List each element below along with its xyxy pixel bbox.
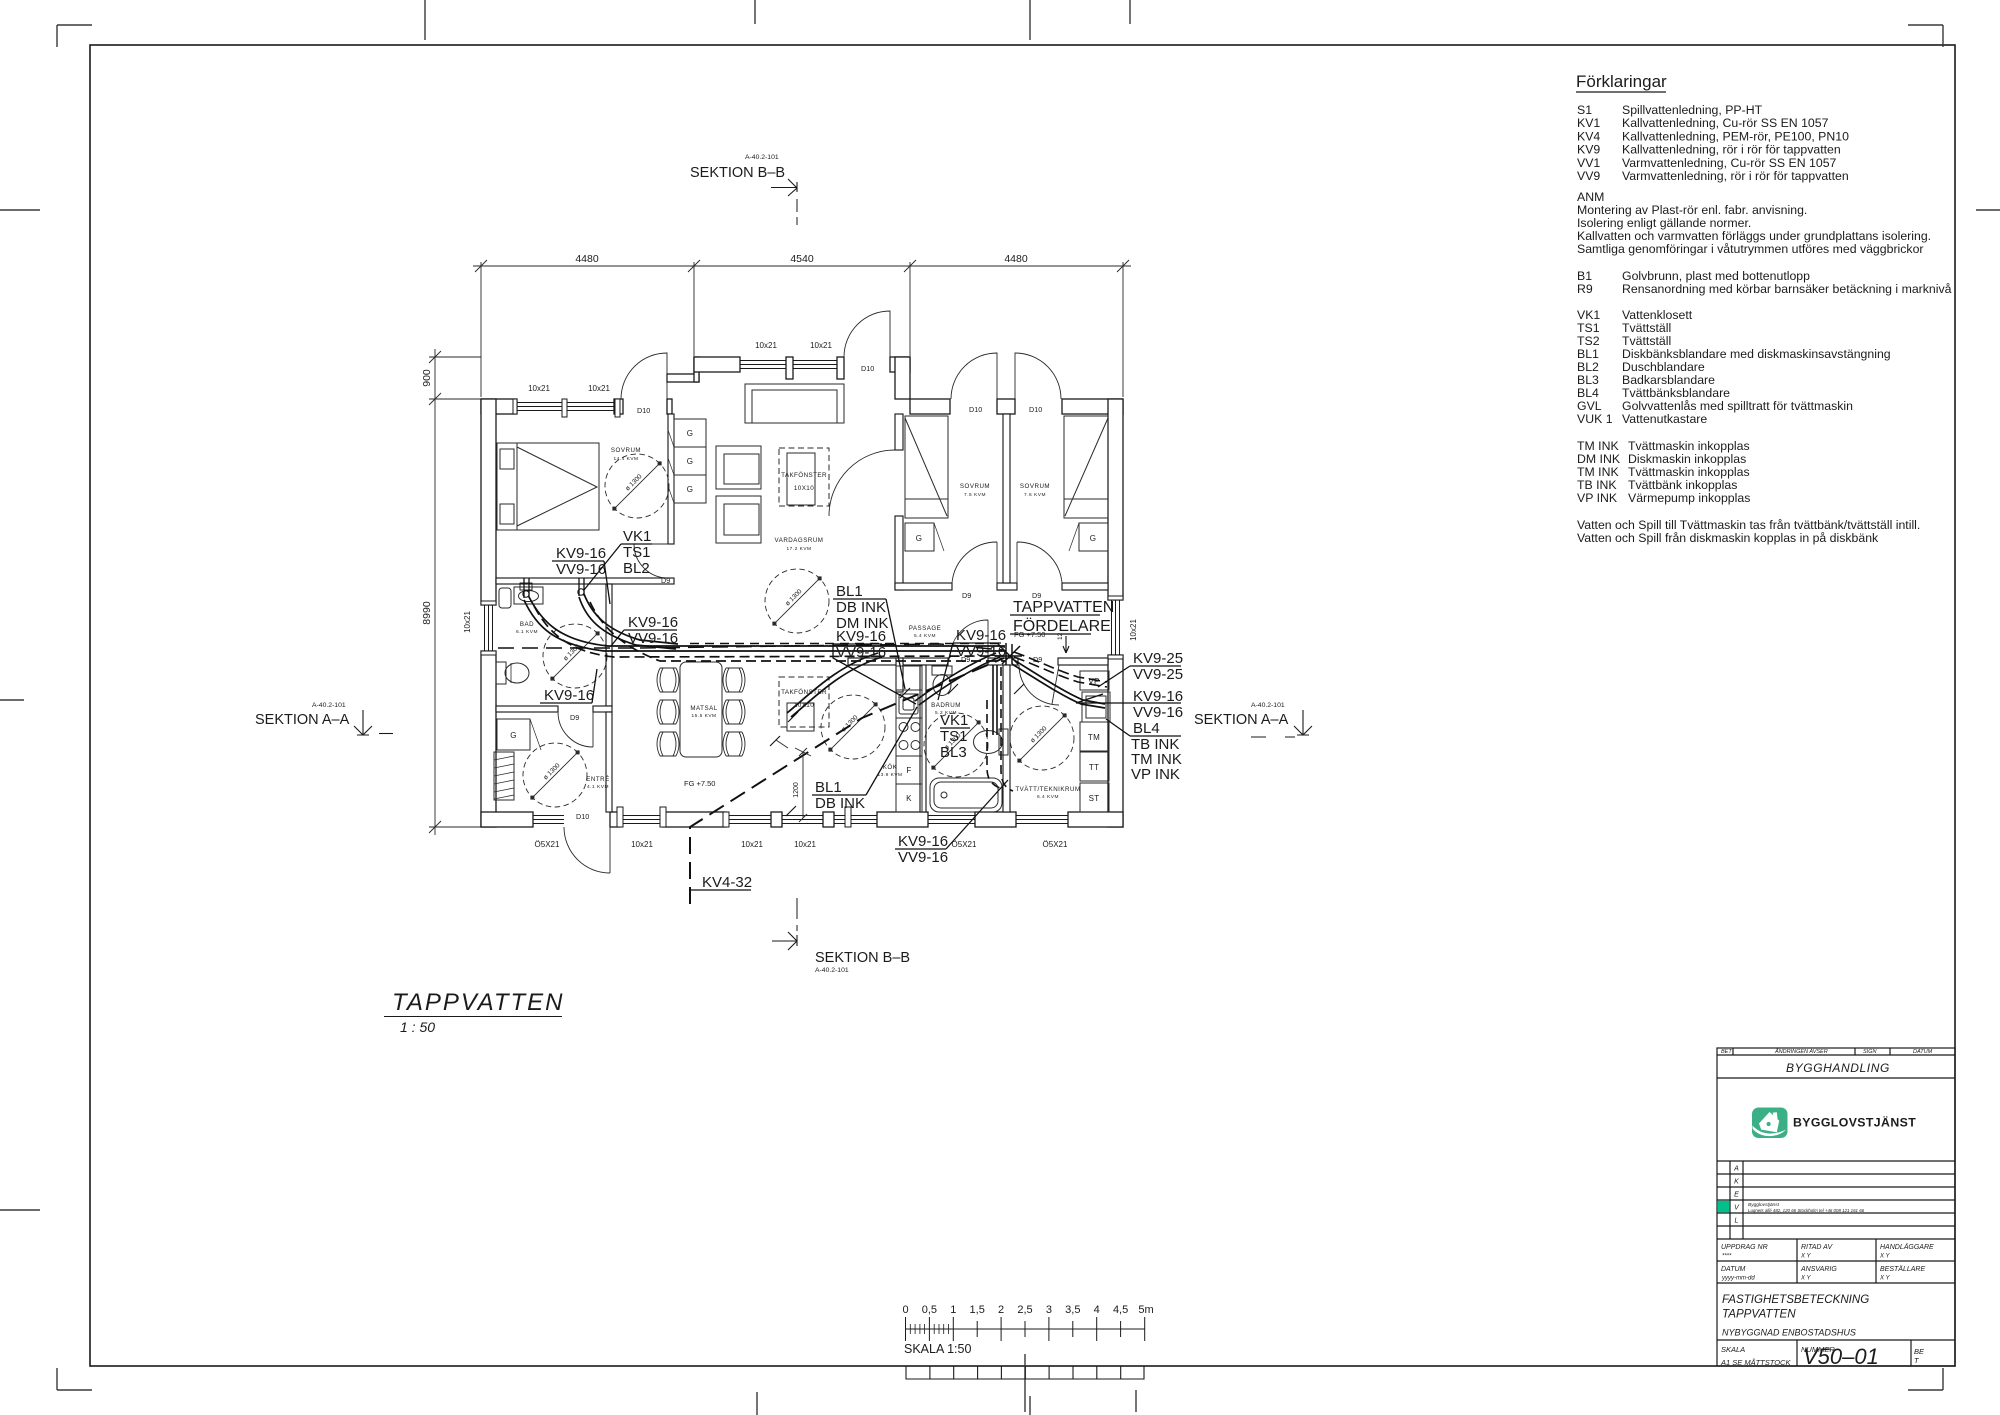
circle tvätt xyxy=(1010,706,1074,770)
svg-text:BADRUM: BADRUM xyxy=(931,702,961,709)
svg-text:VARDAGSRUM: VARDAGSRUM xyxy=(775,537,824,544)
takfönster vardagsrum xyxy=(779,448,829,506)
svg-text:10x21: 10x21 xyxy=(794,840,816,849)
window west 10x21 xyxy=(485,605,493,651)
svg-text:Rensanordning med körbar barns: Rensanordning med körbar barnsäker betäc… xyxy=(1622,282,1952,296)
window east 10x21 xyxy=(1112,600,1120,655)
wall bedrooms south xyxy=(895,583,952,590)
pipe KV main trunk pair from bad fixture 1 xyxy=(524,600,1005,651)
svg-text:Kallvattenledning, Cu-rör SS E: Kallvattenledning, Cu-rör SS EN 1057 xyxy=(1622,116,1829,130)
svg-text:A: A xyxy=(1733,1166,1739,1173)
pipe straight dashed west run xyxy=(498,647,640,649)
svg-text:BL3: BL3 xyxy=(940,744,967,761)
svg-text:BE: BE xyxy=(1914,1347,1925,1356)
title block frame xyxy=(1717,1048,1955,1366)
svg-text:BL4: BL4 xyxy=(1133,720,1160,737)
svg-text:Varmvattenledning, Cu-rör SS E: Varmvattenledning, Cu-rör SS EN 1057 xyxy=(1622,156,1837,170)
svg-text:Samtliga genomföringar i våtut: Samtliga genomföringar i våtutrymmen utf… xyxy=(1577,242,1924,256)
svg-text:X Y: X Y xyxy=(1879,1276,1891,1282)
kök sink xyxy=(899,694,918,714)
svg-text:5m: 5m xyxy=(1138,1304,1153,1316)
svg-text:Kallvattenledning, PEM-rör, PE: Kallvattenledning, PEM-rör, PE100, PN10 xyxy=(1622,129,1849,143)
legend Förklaringar xyxy=(1576,72,1952,545)
svg-text:Kallvattenledning, rör i rör f: Kallvattenledning, rör i rör för tappvat… xyxy=(1622,143,1841,157)
svg-text:SKALA 1:50: SKALA 1:50 xyxy=(904,1342,971,1356)
svg-text:10x21: 10x21 xyxy=(810,341,832,350)
svg-text:10X10: 10X10 xyxy=(794,702,814,709)
svg-text:Förklaringar: Förklaringar xyxy=(1576,72,1667,91)
svg-text:17.2 KVM: 17.2 KVM xyxy=(786,546,811,552)
svg-text:Vattenklosett: Vattenklosett xyxy=(1622,308,1693,322)
main drawing title TAPPVATTEN 1:50 xyxy=(384,989,564,1035)
svg-text:KV9: KV9 xyxy=(1577,143,1600,157)
pipes xyxy=(498,578,1107,904)
svg-text:0: 0 xyxy=(902,1304,908,1316)
svg-text:MATSAL: MATSAL xyxy=(690,705,717,712)
svg-text:KÖK: KÖK xyxy=(883,764,898,771)
svg-text:ST: ST xyxy=(1089,794,1100,803)
svg-text:TAPPVATTEN: TAPPVATTEN xyxy=(1722,1308,1796,1321)
svg-text:KV4: KV4 xyxy=(1577,129,1600,143)
svg-text:7.5 KVM: 7.5 KVM xyxy=(964,492,986,498)
window labels xyxy=(463,341,1138,849)
matsal table xyxy=(680,662,722,757)
svg-text:BL2: BL2 xyxy=(1577,360,1599,374)
tvätt TM TT ST boxes xyxy=(1080,722,1109,751)
svg-text:VV9-16: VV9-16 xyxy=(628,630,678,647)
wall top-right wing xyxy=(910,399,950,414)
section mark A-A right xyxy=(1194,702,1312,737)
svg-text:TAPPVATTEN: TAPPVATTEN xyxy=(392,989,564,1016)
svg-text:G: G xyxy=(687,429,694,438)
svg-text:D10: D10 xyxy=(576,812,589,821)
svg-text:SEKTION A–A: SEKTION A–A xyxy=(255,712,350,728)
svg-text:BL1: BL1 xyxy=(815,779,842,796)
svg-text:14.4 KVM: 14.4 KVM xyxy=(613,456,638,462)
svg-text:900: 900 xyxy=(421,369,433,387)
circle vardagsrum xyxy=(765,569,829,633)
svg-text:Tvättställ: Tvättställ xyxy=(1622,334,1671,348)
svg-text:TT: TT xyxy=(1089,763,1099,772)
svg-text:1200: 1200 xyxy=(793,782,800,798)
svg-text:KV9-25: KV9-25 xyxy=(1133,650,1183,667)
svg-text:D9: D9 xyxy=(962,591,971,600)
wall bad east xyxy=(606,584,612,706)
dimension top xyxy=(473,260,1131,397)
pipe drop badrum xyxy=(996,665,998,735)
armchair 1 xyxy=(716,446,761,489)
svg-text:NYBYGGNAD ENBOSTADSHUS: NYBYGGNAD ENBOSTADSHUS xyxy=(1722,1328,1856,1338)
closet G sovrum1 xyxy=(674,419,706,503)
svg-text:BL1: BL1 xyxy=(1577,347,1599,361)
bad shower corner xyxy=(499,588,511,608)
pipe branch VP dashed xyxy=(1014,652,1107,682)
svg-text:L: L xyxy=(1735,1218,1739,1225)
window 10x21 pair middle top xyxy=(740,361,837,369)
svg-text:TM INK: TM INK xyxy=(1577,465,1619,479)
svg-text:Ö5X21: Ö5X21 xyxy=(1043,840,1068,849)
interior walls xyxy=(496,414,1108,812)
bottom centering strip boxes xyxy=(906,1366,1144,1379)
svg-text:D10: D10 xyxy=(969,405,982,414)
pipe branch kök island DM xyxy=(791,657,882,717)
project titles xyxy=(1720,1293,1925,1369)
svg-text:VK1: VK1 xyxy=(623,528,651,545)
bed sovrum1 xyxy=(497,443,599,530)
pipe tick marks xyxy=(770,684,1024,816)
svg-text:KV9-16: KV9-16 xyxy=(956,627,1006,644)
svg-text:D9: D9 xyxy=(1032,591,1041,600)
door D9 sovrum1 xyxy=(634,544,668,578)
svg-text:Duschblandare: Duschblandare xyxy=(1622,360,1705,374)
window symbols xyxy=(481,361,1123,828)
wall middle top xyxy=(694,357,740,372)
door labels xyxy=(570,364,1042,821)
svg-text:Ö5X21: Ö5X21 xyxy=(952,840,977,849)
wall bedroom divider xyxy=(1003,414,1010,583)
bed sovrum2 xyxy=(905,416,1108,551)
svg-text:D9: D9 xyxy=(570,713,579,722)
wall sovrum1 east xyxy=(668,414,674,544)
wall vardagsrum east xyxy=(895,414,903,450)
svg-text:SKALA: SKALA xyxy=(1721,1345,1745,1354)
pipe VV trunk dashed pair xyxy=(534,606,1005,657)
svg-text:KV9-16: KV9-16 xyxy=(544,687,594,704)
svg-text:G: G xyxy=(687,485,694,494)
bathtub xyxy=(930,778,1002,812)
svg-text:V50–01: V50–01 xyxy=(1803,1344,1879,1369)
wall west xyxy=(481,399,496,605)
fields UPPDRAG NR / RITAD AV / HANDLÄGGARE xyxy=(1721,1243,1934,1273)
svg-text:KV4-32: KV4-32 xyxy=(702,874,752,891)
svg-text:4540: 4540 xyxy=(790,253,814,265)
svg-text:D9: D9 xyxy=(661,576,670,585)
pipe riser stubs bad wall xyxy=(524,578,584,598)
svg-text:BESTÄLLARE: BESTÄLLARE xyxy=(1880,1265,1925,1273)
circle badrum xyxy=(924,713,988,777)
room labels xyxy=(520,447,1081,793)
svg-text:3,5: 3,5 xyxy=(1065,1304,1080,1316)
svg-text:GVL: GVL xyxy=(1577,399,1602,413)
svg-text:6.1 KVM: 6.1 KVM xyxy=(516,629,538,635)
door D9 sovrum2 xyxy=(952,542,997,583)
svg-text:Diskmaskin inkopplas: Diskmaskin inkopplas xyxy=(1628,452,1746,466)
svg-text:G: G xyxy=(1090,534,1097,543)
wall badrum west xyxy=(920,665,926,812)
wall passage south xyxy=(848,658,948,665)
svg-text:Badkarsblandare: Badkarsblandare xyxy=(1622,373,1715,387)
svg-text:Vattenutkastare: Vattenutkastare xyxy=(1622,412,1707,426)
pipe branch kök sink xyxy=(919,657,1000,705)
svg-text:DB INK: DB INK xyxy=(815,795,865,812)
svg-text:D10: D10 xyxy=(861,364,874,373)
svg-text:VV1: VV1 xyxy=(1577,156,1600,170)
svg-text:K: K xyxy=(906,794,912,803)
svg-text:Tvättställ: Tvättställ xyxy=(1622,321,1671,335)
svg-text:Varmvattenledning, rör i rör f: Varmvattenledning, rör i rör för tappvat… xyxy=(1622,169,1849,183)
bed sovrum3 xyxy=(1064,416,1108,518)
circle sovrum1 xyxy=(605,454,669,518)
badrum sink TS1 xyxy=(974,731,1003,754)
svg-text:Tvättbänksblandare: Tvättbänksblandare xyxy=(1622,386,1730,400)
svg-text:Ö5X21: Ö5X21 xyxy=(535,840,560,849)
section mark B-B top xyxy=(690,154,797,225)
svg-text:1 : 50: 1 : 50 xyxy=(400,1019,435,1035)
svg-text:Diskbänksblandare med diskmask: Diskbänksblandare med diskmaskinsavstäng… xyxy=(1622,347,1891,361)
svg-text:S1: S1 xyxy=(1577,103,1592,117)
svg-text:5.4 KVM: 5.4 KVM xyxy=(914,633,936,639)
svg-text:4: 4 xyxy=(1094,1304,1100,1316)
svg-text:BAD: BAD xyxy=(520,621,534,628)
svg-text:4.1 KVM: 4.1 KVM xyxy=(587,784,609,790)
door D9 sovrum3 xyxy=(1017,542,1062,583)
takfönster labels xyxy=(781,471,827,709)
scale bar xyxy=(906,1317,1145,1341)
svg-text:BYGGHANDLING: BYGGHANDLING xyxy=(1786,1061,1890,1075)
svg-text:Spillvattenledning, PP-HT: Spillvattenledning, PP-HT xyxy=(1622,103,1763,117)
bad sink xyxy=(514,587,543,604)
door opening vardagsrum east xyxy=(829,450,895,516)
svg-text:13.9 KVM: 13.9 KVM xyxy=(877,772,902,778)
svg-text:VV9-16: VV9-16 xyxy=(836,644,886,661)
svg-text:FG +7.50: FG +7.50 xyxy=(684,779,715,788)
door D10 entré bottom xyxy=(564,827,610,879)
svg-text:SOVRUM: SOVRUM xyxy=(611,447,641,454)
wall east xyxy=(1108,399,1123,600)
door D9 badrum xyxy=(950,620,988,658)
doors xyxy=(558,311,1062,879)
svg-text:10x21: 10x21 xyxy=(463,611,472,633)
svg-text:KV9-16: KV9-16 xyxy=(898,833,948,850)
svg-text:8990: 8990 xyxy=(421,601,433,625)
circle entré xyxy=(523,743,587,807)
tvätt bänk BL4 xyxy=(1082,692,1110,722)
svg-text:5.2 KVM: 5.2 KVM xyxy=(935,710,957,716)
svg-text:Golvbrunn, plast med bottenutl: Golvbrunn, plast med bottenutlopp xyxy=(1622,269,1810,283)
door D9 bad south xyxy=(558,712,593,747)
wall south xyxy=(481,812,533,827)
svg-text:G: G xyxy=(687,457,694,466)
door D10 middle top xyxy=(844,311,890,357)
annotation underlines + leaders xyxy=(540,544,1181,890)
svg-text:DATUM: DATUM xyxy=(1913,1049,1933,1055)
svg-text:Kallvatten och varmvatten förl: Kallvatten och varmvatten förläggs under… xyxy=(1577,229,1931,243)
wall bad north xyxy=(496,578,674,584)
takfönster kök xyxy=(779,677,829,727)
pipe KV4-32 service line xyxy=(690,658,1004,904)
svg-text:12: 12 xyxy=(1057,632,1064,640)
logo green square xyxy=(1752,1108,1788,1139)
svg-text:BL3: BL3 xyxy=(1577,373,1599,387)
FG level labels xyxy=(684,630,1045,788)
svg-text:ÄNDRINGEN AVSER: ÄNDRINGEN AVSER xyxy=(1774,1048,1828,1055)
svg-text:G: G xyxy=(510,731,517,740)
svg-text:3: 3 xyxy=(1046,1304,1052,1316)
svg-text:DM INK: DM INK xyxy=(1577,452,1621,466)
wall kök north jamb xyxy=(896,658,903,692)
svg-text:A-40.2-101: A-40.2-101 xyxy=(1251,702,1285,709)
wall badrum east xyxy=(1003,665,1010,812)
svg-text:R9: R9 xyxy=(1577,282,1593,296)
windows south wall xyxy=(533,816,564,824)
entré radiator xyxy=(494,752,514,800)
svg-text:E: E xyxy=(1734,1192,1739,1199)
svg-text:****: **** xyxy=(1722,1254,1732,1260)
svg-text:TS2: TS2 xyxy=(1577,334,1600,348)
door D10 sovrum3 top xyxy=(1015,353,1061,399)
svg-text:VV9-16: VV9-16 xyxy=(556,561,606,578)
pipe extra band dash xyxy=(690,643,1002,645)
svg-text:Vatten och Spill till Tvättmas: Vatten och Spill till Tvättmaskin tas fr… xyxy=(1577,518,1920,532)
svg-text:VP INK: VP INK xyxy=(1131,766,1180,783)
door D9 tvätt xyxy=(1019,665,1059,705)
svg-text:FG +7.50: FG +7.50 xyxy=(1014,630,1045,639)
svg-text:UPPDRAG NR: UPPDRAG NR xyxy=(1721,1244,1768,1251)
svg-text:Tvättmaskin inkopplas: Tvättmaskin inkopplas xyxy=(1628,465,1750,479)
wall entry nook xyxy=(667,374,699,382)
svg-text:TM INK: TM INK xyxy=(1577,439,1619,453)
svg-text:TB INK: TB INK xyxy=(1577,478,1617,492)
entré closet G xyxy=(497,719,530,750)
svg-text:ANSVARIG: ANSVARIG xyxy=(1800,1266,1837,1273)
svg-text:BL2: BL2 xyxy=(623,560,650,577)
svg-text:yyyy-mm-dd: yyyy-mm-dd xyxy=(1721,1276,1755,1282)
svg-text:2,5: 2,5 xyxy=(1017,1304,1032,1316)
appliance letters xyxy=(510,429,1100,803)
revision letters A K E V L xyxy=(1733,1166,1740,1225)
svg-text:Lugnets allé 482, 120 66 Stock: Lugnets allé 482, 120 66 Stockholm tel +… xyxy=(1748,1208,1865,1213)
svg-text:B1: B1 xyxy=(1577,269,1592,283)
svg-text:10x21: 10x21 xyxy=(528,384,550,393)
svg-text:4480: 4480 xyxy=(1004,253,1028,265)
section mark A-A left xyxy=(255,702,393,735)
svg-text:VUK 1: VUK 1 xyxy=(1577,412,1613,426)
door D10 entry top-left xyxy=(621,353,667,399)
svg-text:4,5: 4,5 xyxy=(1113,1304,1128,1316)
svg-text:1: 1 xyxy=(950,1304,956,1316)
svg-text:VV9-16: VV9-16 xyxy=(1133,704,1183,721)
svg-text:ENTRÉ: ENTRÉ xyxy=(586,776,609,783)
svg-text:SEKTION B–B: SEKTION B–B xyxy=(690,165,785,181)
svg-text:D9: D9 xyxy=(961,655,970,664)
svg-text:SOVRUM: SOVRUM xyxy=(1020,483,1050,490)
svg-text:D10: D10 xyxy=(637,406,650,415)
svg-text:A-40.2-101: A-40.2-101 xyxy=(745,154,779,161)
wall top-left wing xyxy=(481,399,517,414)
pipe branch BL4 bench xyxy=(1014,660,1105,704)
svg-text:X Y: X Y xyxy=(1879,1254,1891,1260)
svg-text:4480: 4480 xyxy=(575,253,599,265)
svg-text:15.5 KVM: 15.5 KVM xyxy=(691,713,716,719)
wall entré east xyxy=(606,712,612,812)
pipe KV pair from bad fixture 2 xyxy=(579,597,676,649)
svg-text:BYGGLOVSTJÄNST: BYGGLOVSTJÄNST xyxy=(1793,1115,1916,1130)
svg-text:A1 SE MÅTTSTOCK: A1 SE MÅTTSTOCK xyxy=(1720,1358,1791,1367)
annotation labels xyxy=(544,528,1183,891)
wall bad south xyxy=(496,706,558,712)
svg-text:TAPPVATTEN: TAPPVATTEN xyxy=(1013,599,1114,616)
svg-text:F: F xyxy=(906,766,911,775)
dimension left xyxy=(429,349,481,835)
svg-text:DATUM: DATUM xyxy=(1721,1266,1746,1273)
svg-text:10x21: 10x21 xyxy=(588,384,610,393)
badrum toilet VK1 xyxy=(932,666,952,675)
svg-text:SIGN: SIGN xyxy=(1863,1049,1876,1055)
svg-text:KV9-16: KV9-16 xyxy=(556,545,606,562)
svg-text:KV9-16: KV9-16 xyxy=(628,614,678,631)
svg-text:KV1: KV1 xyxy=(1577,116,1600,130)
svg-text:7.6 KVM: 7.6 KVM xyxy=(1024,492,1046,498)
exterior walls xyxy=(481,357,1123,827)
matsal chairs xyxy=(657,668,679,692)
logo house icon xyxy=(1759,1112,1779,1132)
svg-text:Värmepump inkopplas: Värmepump inkopplas xyxy=(1628,491,1750,505)
svg-text:BET: BET xyxy=(1721,1049,1732,1055)
svg-text:VV9-16: VV9-16 xyxy=(898,849,948,866)
svg-text:A-40.2-101: A-40.2-101 xyxy=(312,702,346,709)
svg-text:TS1: TS1 xyxy=(940,728,968,745)
sofa vardagsrum xyxy=(745,384,844,423)
svg-text:1,5: 1,5 xyxy=(970,1304,985,1316)
svg-text:DB INK: DB INK xyxy=(836,599,886,616)
svg-text:BL4: BL4 xyxy=(1577,386,1599,400)
armchair 2 xyxy=(716,496,761,543)
svg-text:TS1: TS1 xyxy=(623,544,651,561)
bad toilet xyxy=(496,662,506,684)
svg-text:Isolering enligt gällande norm: Isolering enligt gällande normer. xyxy=(1577,216,1751,230)
svg-text:6.4 KVM: 6.4 KVM xyxy=(1037,794,1059,800)
svg-text:VK1: VK1 xyxy=(1577,308,1600,322)
window 10x21 pair top-left wing xyxy=(517,403,614,411)
door D10 sovrum2 top xyxy=(951,353,997,399)
circle bad xyxy=(543,624,607,688)
svg-text:Vatten och Spill från diskmask: Vatten och Spill från diskmaskin kopplas… xyxy=(1577,531,1879,545)
svg-text:VV9: VV9 xyxy=(1577,169,1600,183)
svg-text:SOVRUM: SOVRUM xyxy=(960,483,990,490)
svg-text:10X10: 10X10 xyxy=(794,485,814,492)
svg-text:Tvättbänk inkopplas: Tvättbänk inkopplas xyxy=(1628,478,1737,492)
svg-text:ANM: ANM xyxy=(1577,190,1604,204)
kök stove burners xyxy=(899,723,908,732)
svg-text:D10: D10 xyxy=(1029,405,1042,414)
kök bench column xyxy=(896,666,922,812)
kök island xyxy=(787,703,814,731)
title row BET ÄNDRINGEN AVSER SIGN DATUM xyxy=(1721,1048,1933,1055)
svg-text:TS1: TS1 xyxy=(1577,321,1600,335)
pipe connection circles xyxy=(523,591,529,597)
svg-text:0,5: 0,5 xyxy=(922,1304,937,1316)
svg-text:TM: TM xyxy=(1088,733,1100,742)
section mark B-B bottom xyxy=(772,898,910,974)
svg-text:10x21: 10x21 xyxy=(1129,619,1138,641)
svg-text:Montering av Plast-rör enl. fa: Montering av Plast-rör enl. fabr. anvisn… xyxy=(1577,203,1807,217)
green V-row square xyxy=(1718,1201,1730,1213)
svg-text:2: 2 xyxy=(998,1304,1004,1316)
svg-text:TAKFÖNSTER: TAKFÖNSTER xyxy=(781,471,827,479)
svg-text:X Y: X Y xyxy=(1800,1254,1812,1260)
svg-text:10x21: 10x21 xyxy=(755,341,777,350)
svg-text:TVÄTT/TEKNIKRUM: TVÄTT/TEKNIKRUM xyxy=(1015,786,1080,793)
svg-text:BL1: BL1 xyxy=(836,583,863,600)
svg-text:VV9-25: VV9-25 xyxy=(1133,666,1183,683)
svg-text:TAKFÖNSTER: TAKFÖNSTER xyxy=(781,688,827,696)
svg-text:10x21: 10x21 xyxy=(631,840,653,849)
svg-text:SEKTION B–B: SEKTION B–B xyxy=(815,950,910,966)
svg-text:PASSAGE: PASSAGE xyxy=(909,625,942,632)
svg-text:K: K xyxy=(1734,1179,1739,1186)
svg-text:A-40.2-101: A-40.2-101 xyxy=(815,967,849,974)
pipe manifold knot xyxy=(998,643,1022,665)
